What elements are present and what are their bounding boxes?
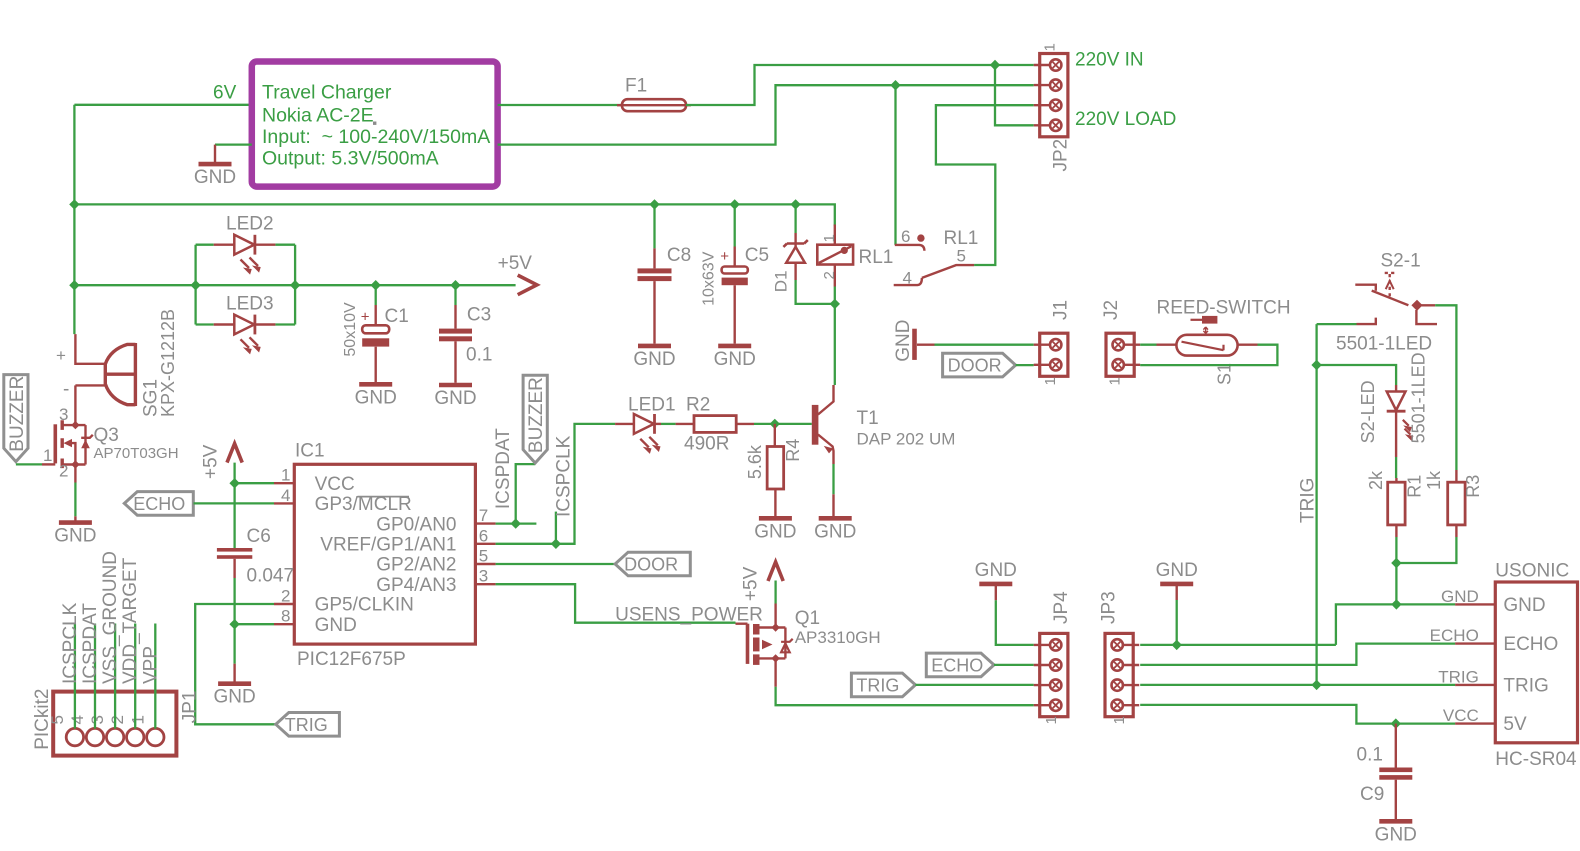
svg-text:3: 3 (479, 567, 488, 586)
svg-text:S2-LED: S2-LED (1358, 380, 1378, 443)
svg-text:1: 1 (128, 715, 147, 724)
wire JP2 pin3 to relay contact pin5 (936, 105, 1034, 265)
flag TRIG at JP4 (851, 673, 915, 697)
wire LED2/LED3 parallel loop (74, 284, 515, 286)
svg-text:GND: GND (1503, 595, 1545, 616)
svg-text:490R: 490R (684, 434, 729, 455)
svg-text:5: 5 (479, 547, 488, 566)
svg-text:TRIG: TRIG (1503, 675, 1548, 696)
svg-text:1: 1 (821, 234, 838, 242)
svg-text:USENS_POWER: USENS_POWER (615, 605, 763, 626)
svg-text:1: 1 (1042, 377, 1059, 385)
svg-text:5: 5 (957, 247, 966, 266)
wire BUZZER flag to Q3 gate (16, 463, 42, 465)
wire IC1 pin5 to DOOR flag (496, 563, 615, 565)
svg-text:VPP: VPP (140, 646, 161, 684)
junction bus C5 (730, 199, 740, 209)
fuse F1 (622, 99, 686, 111)
svg-text:4: 4 (281, 486, 290, 505)
svg-text:C3: C3 (467, 305, 491, 326)
svg-text:4: 4 (68, 715, 87, 724)
svg-text:2: 2 (108, 715, 127, 724)
connector J2 (1106, 333, 1134, 376)
wire S2 to R3 (1435, 305, 1456, 470)
flag BUZZER (right) (523, 375, 547, 463)
svg-text:Output: 5.3V/500mA: Output: 5.3V/500mA (262, 148, 439, 170)
junction IC1 pin1 (229, 478, 239, 488)
svg-text:GND: GND (1441, 587, 1479, 606)
IC IC1 PIC12F675P (294, 464, 475, 644)
svg-text:GP5/CLKIN: GP5/CLKIN (315, 595, 414, 616)
svg-text:DOOR: DOOR (948, 356, 1002, 376)
svg-text:JP2: JP2 (1051, 139, 1072, 172)
svg-text:DAP 202 UM: DAP 202 UM (857, 430, 956, 449)
ground GND under R4 (759, 516, 792, 521)
junction relay feed (890, 80, 900, 90)
svg-text:ICSPCLK: ICSPCLK (554, 435, 575, 517)
wire DOOR to J1 pin2 (1016, 364, 1034, 366)
svg-text:GP2/AN2: GP2/AN2 (376, 555, 456, 576)
svg-text:VDD_TARGET: VDD_TARGET (120, 557, 141, 684)
svg-text:ICSPDAT: ICSPDAT (493, 428, 514, 509)
svg-text:-: - (63, 379, 69, 400)
module USONIC HC-SR04 (1495, 582, 1577, 743)
diode LED3 (214, 323, 276, 325)
wire reed switch return to J2 pin2 (1140, 345, 1277, 365)
junction R4 base (770, 419, 780, 429)
svg-text:T1: T1 (857, 408, 879, 429)
resistor R4 (774, 424, 776, 447)
diode LED2 (214, 243, 276, 245)
svg-text:GND: GND (814, 521, 856, 542)
wire GND to JP4 pin1 (996, 600, 1034, 645)
svg-text:1: 1 (43, 446, 52, 465)
svg-text:50x10V: 50x10V (342, 302, 359, 357)
capacitor C5 (734, 204, 736, 246)
svg-text:REED-SWITCH: REED-SWITCH (1157, 298, 1291, 319)
relay contact RL1 (895, 245, 925, 251)
ground GND under C8 (638, 344, 671, 349)
wire IC1 pin6 to LED1 (496, 424, 615, 544)
ground GND under C9 (1379, 819, 1412, 824)
svg-text:1: 1 (1107, 377, 1124, 385)
svg-text:S1: S1 (1215, 363, 1235, 385)
diode S2-LED (1395, 385, 1397, 392)
svg-text:0.1: 0.1 (1357, 745, 1383, 766)
wire Q3 source to GND (74, 465, 76, 483)
svg-text:ECHO: ECHO (1503, 634, 1558, 655)
junction bus C8 (649, 199, 659, 209)
wire +5V to IC1 pin1 and C6 (233, 463, 235, 548)
junction TRIG rail (1311, 680, 1321, 690)
svg-text:D1: D1 (772, 270, 791, 292)
svg-text:1: 1 (1043, 716, 1060, 724)
svg-text:LED1: LED1 (628, 395, 676, 416)
svg-text:1: 1 (1111, 716, 1128, 724)
svg-text:1k: 1k (1424, 470, 1444, 490)
diode D1 (zener) (794, 204, 796, 233)
flag DOOR at IC1 (615, 552, 690, 576)
reed switch actuator icon (1191, 319, 1203, 321)
connector JP1 PICkit2 (53, 692, 176, 756)
transistor T1 (812, 405, 819, 445)
svg-text:7: 7 (479, 506, 488, 525)
svg-text:S2-1: S2-1 (1381, 251, 1421, 272)
svg-text:220V LOAD: 220V LOAD (1075, 109, 1176, 130)
ground GND above JP4 (979, 582, 1012, 587)
svg-text:5: 5 (48, 715, 67, 724)
svg-text:GND: GND (893, 320, 914, 362)
svg-text:+5V: +5V (741, 566, 762, 601)
transistor Q1 (N-MOSFET) (736, 623, 748, 625)
capacitor C1 (375, 285, 377, 305)
svg-text:AP3310GH: AP3310GH (795, 628, 881, 647)
connector JP4 (1040, 633, 1068, 716)
wire JP3 pin2 to USONIC ECHO (1140, 644, 1455, 665)
wire GND to J1 pin1 (935, 344, 1034, 346)
wire relay coil pin2 to T1 collector (834, 287, 836, 386)
wire S2-LED to R1 (1395, 457, 1397, 478)
svg-text:C6: C6 (247, 526, 271, 547)
junction JP2 pin1 net (990, 60, 1000, 70)
wire T1 emitter to GND (832, 464, 834, 494)
wire left vertical rail (73, 105, 75, 334)
svg-text:F1: F1 (625, 76, 647, 97)
diode LED1 (615, 423, 634, 425)
capacitor C3 (454, 285, 456, 305)
svg-text:GND: GND (633, 349, 675, 370)
svg-text:GND: GND (754, 521, 796, 542)
svg-text:KPX-G1212B: KPX-G1212B (158, 309, 178, 417)
svg-text:DOOR: DOOR (624, 555, 678, 575)
svg-text:LED3: LED3 (226, 294, 274, 315)
connector JP2 (1040, 54, 1068, 137)
wire JP3 pin3 to USONIC TRIG (1140, 684, 1455, 686)
wire main 6V bus (74, 204, 834, 225)
junction LED loop right (290, 280, 300, 290)
svg-text:6: 6 (479, 526, 488, 545)
junction S2-LED branch (1311, 360, 1321, 370)
ground GND under Q3 (59, 520, 92, 525)
svg-text:VREF/GP1/AN1: VREF/GP1/AN1 (320, 535, 456, 556)
wire 6V net from left rail to charger box (74, 104, 251, 106)
flag BUZZER (left) (4, 375, 28, 462)
wire JP3 pin1 to GND rail (1140, 644, 1336, 646)
svg-text:8: 8 (281, 607, 290, 626)
junction LED loop left (190, 280, 200, 290)
svg-text:GND: GND (975, 560, 1017, 581)
relay coil RL1 (834, 225, 836, 245)
svg-text:ICSPCLK: ICSPCLK (60, 602, 81, 684)
svg-text:R1: R1 (1405, 475, 1425, 498)
capacitor C8 (653, 204, 655, 248)
svg-text:JP1: JP1 (180, 691, 201, 724)
svg-text:2: 2 (821, 271, 838, 279)
resistor R2 (655, 423, 662, 425)
svg-text:TRIG: TRIG (1438, 667, 1479, 686)
wire charger pin2 to JP2 pin2 (498, 85, 1034, 144)
svg-text:HC-SR04: HC-SR04 (1495, 749, 1577, 770)
svg-text:GND: GND (54, 526, 96, 547)
svg-text:USONIC: USONIC (1495, 561, 1569, 582)
svg-text:R2: R2 (686, 395, 710, 416)
svg-text:ECHO: ECHO (931, 655, 983, 675)
svg-text:+5V: +5V (201, 444, 222, 479)
svg-text:VSS_GROUND: VSS_GROUND (100, 551, 121, 684)
svg-text:4: 4 (903, 269, 912, 288)
ground GND under C5 (718, 344, 751, 349)
wire GND net to USONIC (1396, 603, 1455, 605)
svg-text:1: 1 (281, 466, 290, 485)
wire D1 anode to relay coil pin2 (796, 280, 835, 304)
junction JP3 gnd symbol (1172, 640, 1182, 650)
capacitor C9 (1395, 724, 1397, 768)
svg-text:2: 2 (59, 462, 68, 481)
junction relay coil pin2 / D1 (830, 299, 840, 309)
junction usonic gnd (1391, 599, 1401, 609)
svg-text:6: 6 (901, 227, 910, 246)
svg-text:Q1: Q1 (795, 608, 820, 629)
svg-text:Travel Charger: Travel Charger (262, 81, 392, 103)
svg-text:VCC: VCC (1443, 706, 1479, 725)
wire ECHO to JP4 pin2 (994, 664, 1034, 666)
svg-text:GND: GND (213, 687, 255, 708)
svg-text:C1: C1 (385, 306, 409, 327)
svg-text:J2: J2 (1101, 300, 1122, 320)
svg-text:GND: GND (714, 349, 756, 370)
svg-text:+: + (361, 309, 370, 326)
svg-text:GND: GND (434, 388, 476, 409)
connector JP3 (1105, 633, 1133, 716)
connector J1 (1040, 333, 1068, 376)
ground GND under T1 (819, 516, 852, 521)
wire J2 pin1 to reed switch (1140, 344, 1156, 346)
resistor R3 (1448, 482, 1465, 525)
ground GND above JP3 (1160, 582, 1193, 587)
svg-text:TRIG: TRIG (1298, 478, 1319, 523)
svg-text:+: + (56, 346, 66, 365)
svg-text:ICSPDAT: ICSPDAT (80, 603, 101, 684)
svg-text:BUZZER: BUZZER (7, 376, 28, 452)
junction bus D1 (790, 199, 800, 209)
svg-text:5501-1LED: 5501-1LED (1409, 352, 1429, 443)
wire JP3 pin4 to USONIC 5V (1140, 705, 1455, 724)
svg-text:220V IN: 220V IN (1075, 50, 1144, 71)
ground GND at J1 (rotated) (912, 329, 917, 360)
ground GND under charger (214, 145, 216, 162)
supply +5V arrow at Q1 (768, 562, 783, 581)
svg-text:GND: GND (355, 387, 397, 408)
wire TRIG vertical rail (1315, 324, 1317, 685)
svg-text:Input: ~ 100-240V/150mA: Input: ~ 100-240V/150mA (262, 126, 490, 148)
svg-text:GP0/AN0: GP0/AN0 (376, 514, 456, 535)
wire charger output to F1 (498, 104, 622, 106)
wire junction down to relay contact pin6 (894, 85, 896, 245)
svg-text:PIC12F675P: PIC12F675P (297, 649, 406, 670)
svg-text:GND: GND (315, 615, 357, 636)
svg-text:3: 3 (88, 715, 107, 724)
wire S2 lower terminal to TRIG rail (1317, 323, 1357, 325)
wire TRIG to JP4 pin3 (915, 684, 1033, 686)
svg-text:TRIG: TRIG (856, 675, 899, 695)
svg-text:C8: C8 (667, 245, 691, 266)
svg-text:Nokia AC-2E: Nokia AC-2E (262, 105, 374, 127)
flag ECHO at JP4 (926, 653, 994, 677)
svg-text:2: 2 (281, 587, 290, 606)
ground GND under C3 (439, 383, 472, 388)
svg-text:LED2: LED2 (226, 214, 274, 235)
svg-text:5501-1LED: 5501-1LED (1336, 334, 1432, 355)
flag TRIG at JP1 (276, 713, 340, 737)
wire R2 to T1 base (754, 423, 812, 425)
svg-text:VCC: VCC (315, 474, 355, 495)
wire JP2 pin1 to pin4 link (995, 65, 1034, 125)
svg-text:AP70T03GH: AP70T03GH (94, 445, 179, 462)
svg-text:TRIG: TRIG (285, 715, 328, 735)
svg-text:C5: C5 (745, 245, 769, 266)
svg-text:J1: J1 (1051, 300, 1072, 320)
wire F1 to JP2 pin1 (220V IN) (686, 65, 1034, 105)
junction R3 gnd link (1391, 558, 1401, 568)
ground GND under C6 (218, 681, 251, 686)
svg-text:0.1: 0.1 (466, 345, 492, 366)
wire IC1 pin2 to TRIG flag (195, 604, 276, 724)
svg-text:JP3: JP3 (1099, 591, 1120, 624)
resistor R1 (1395, 478, 1397, 482)
flag DOOR at J1 (943, 353, 1016, 377)
wires JP1 to programming nets (74, 624, 76, 729)
wire R1 R3 to GND rail (1395, 537, 1397, 604)
reed switch S1 (1157, 344, 1177, 346)
svg-text:6V: 6V (213, 83, 237, 104)
capacitor C6 (217, 548, 252, 552)
svg-text:Q3: Q3 (94, 425, 119, 446)
junction C9 vcc (1391, 718, 1401, 728)
flag ECHO to IC1 pin4 (124, 492, 193, 516)
wire buzzer minus to Q3 drain (74, 385, 76, 425)
svg-text:ECHO: ECHO (133, 494, 185, 514)
svg-text:RL1: RL1 (859, 247, 894, 268)
junction ICSPCLK stub (551, 539, 561, 549)
svg-text:GP4/AN3: GP4/AN3 (376, 575, 456, 596)
junction row +5V rail (69, 280, 79, 290)
transistor Q3 (P-MOSFET) (53, 424, 57, 463)
svg-text:IC1: IC1 (295, 441, 325, 462)
svg-text:GND: GND (1375, 824, 1417, 845)
svg-text:R4: R4 (783, 439, 803, 462)
svg-text:R3: R3 (1463, 475, 1483, 498)
svg-text:+: + (720, 248, 729, 265)
wire charger pin2 to GND (215, 143, 252, 145)
supply +5V arrow (top) (518, 275, 537, 295)
svg-text:ECHO: ECHO (1430, 626, 1479, 645)
junction bus left rail (69, 199, 79, 209)
wire C6 to IC1 pin8 and GND (233, 559, 235, 578)
svg-text:3: 3 (59, 405, 68, 424)
wire IC1 pin7 ICSPDAT net (496, 522, 537, 524)
wire to S2-LED (1317, 365, 1397, 385)
buzzer SG1 (75, 334, 105, 364)
svg-text:BUZZER: BUZZER (526, 377, 547, 453)
supply +5V arrow above IC1 (227, 444, 242, 463)
svg-text:1: 1 (1042, 43, 1059, 51)
svg-text:GND: GND (1156, 560, 1198, 581)
svg-text:0.047: 0.047 (247, 566, 295, 587)
svg-text:2k: 2k (1366, 470, 1386, 490)
svg-text:5.6k: 5.6k (745, 444, 765, 479)
svg-text:+5V: +5V (498, 253, 533, 274)
wire IC1 pin3 USENS_POWER to Q1 gate (496, 584, 736, 623)
wire +5V to Q1 drain (774, 581, 776, 604)
ground GND under C1 (359, 382, 392, 387)
svg-text:C9: C9 (1360, 784, 1384, 805)
svg-text:GND: GND (194, 167, 236, 188)
wire Q1 source to JP4 pin4 (774, 658, 776, 686)
svg-text:5V: 5V (1503, 714, 1527, 735)
svg-text:JP4: JP4 (1051, 591, 1072, 624)
svg-text:10x63V: 10x63V (701, 251, 718, 306)
power module box (purple) (252, 62, 498, 187)
